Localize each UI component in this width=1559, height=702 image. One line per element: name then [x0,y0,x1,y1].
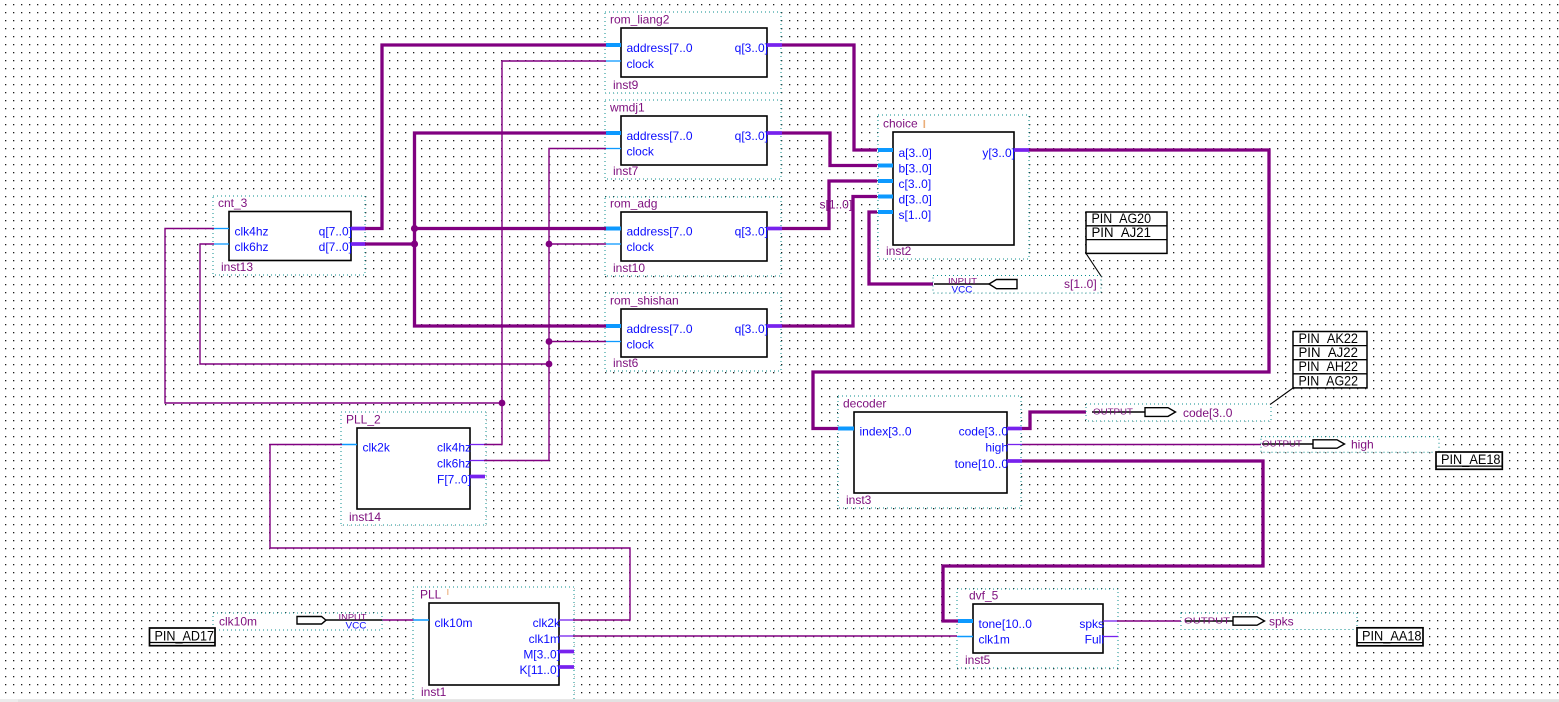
svg-text:clk4hz: clk4hz [437,440,471,454]
junction trunk/cnt_3.d [411,240,418,247]
block rom_shishan (inst6) [605,293,782,371]
svg-text:inst7: inst7 [613,164,639,178]
output pin spks symbol [1184,616,1265,626]
artifact tick after PLL title [447,589,449,595]
svg-text:decoder: decoder [843,397,886,411]
svg-text:clk6hz: clk6hz [437,456,471,470]
wire decoder.high to output pin [1022,444,1262,446]
output pin spks selection box [1181,613,1357,630]
wire PLL.clk1m to dvf_5.clk1m [573,635,957,637]
svg-text:q[7..0]: q[7..0] [319,224,352,238]
pin table PIN_AG20/PIN_AJ21 [1086,211,1167,253]
artifact tick after choice title [924,120,926,128]
svg-text:s[1..0]: s[1..0] [899,208,932,222]
block rom_adg (inst10) [605,197,782,277]
svg-text:OUTPUT: OUTPUT [1262,439,1302,449]
junction clk6hz/rom_shishan [546,338,553,345]
block cnt_3 (inst13) [213,196,366,275]
junction clk4hz [499,400,506,407]
svg-text:Full: Full [1085,632,1104,646]
output pin code symbol [1092,407,1176,417]
svg-text:PLL: PLL [420,588,442,602]
svg-text:address[7..0: address[7..0 [627,322,693,336]
svg-text:inst13: inst13 [221,260,253,274]
wire clk6hz branch to cnt_3.clk6hz [200,244,549,364]
junction clk6hz/cnt [546,361,553,368]
wire clk6hz branch to rom_shishan.clock [549,341,606,343]
svg-text:inst2: inst2 [886,244,912,258]
output pin high label [1351,438,1374,452]
pin box PIN_AD17 [150,628,216,646]
block PLL_2 (inst14) [341,412,486,525]
bus wmdj1.q to choice.b [782,133,877,166]
svg-text:q[3..0]: q[3..0] [735,224,768,238]
svg-text:code[3..0: code[3..0 [959,424,1009,438]
svg-text:PIN_AE18: PIN_AE18 [1441,452,1501,467]
svg-text:clk10m: clk10m [435,616,473,630]
net label s[1..0] [820,198,853,212]
bus cnt_3.q to rom_liang2.address [365,45,606,229]
output pin code label [1183,406,1233,420]
svg-text:clock: clock [627,240,655,254]
svg-text:cnt_3: cnt_3 [218,196,248,210]
svg-text:clk1m: clk1m [979,632,1010,646]
svg-text:index[3..0: index[3..0 [860,424,912,438]
svg-text:clk6hz: clk6hz [235,240,269,254]
svg-text:PIN_AG22: PIN_AG22 [1299,373,1359,388]
svg-text:a[3..0]: a[3..0] [899,146,932,160]
block decoder (inst3) [838,396,1022,508]
svg-text:address[7..0: address[7..0 [627,224,693,238]
svg-text:K[11..0]: K[11..0] [520,663,560,677]
svg-text:rom_liang2: rom_liang2 [610,13,670,27]
svg-text:s[1..0]: s[1..0] [820,198,853,212]
svg-text:clk1m: clk1m [529,632,560,646]
stub clk2k into PLL_2 [342,444,357,446]
svg-text:high: high [1351,438,1374,452]
svg-text:high: high [985,440,1008,454]
output pin code selection box [1086,404,1271,421]
svg-text:clock: clock [627,144,655,158]
svg-text:wmdj1: wmdj1 [609,101,645,115]
svg-text:y[3..0]: y[3..0] [982,146,1015,160]
callout line to s[1..0] label [1086,253,1101,276]
output pin spks label [1269,615,1294,629]
junction trunk/rom_adg [411,225,418,232]
wire clk4hz branch to cnt_3.clk4hz [165,229,502,404]
svg-text:M[3..0]: M[3..0] [523,647,560,661]
stub clk10m into PLL [413,619,429,621]
svg-text:rom_adg: rom_adg [610,197,657,211]
svg-text:PIN_AA18: PIN_AA18 [1362,629,1422,644]
block choice (inst2) [878,115,1029,259]
pin table PIN_AK22..PIN_AG22 [1293,331,1367,388]
svg-text:PIN_AG20: PIN_AG20 [1092,211,1152,226]
svg-text:inst14: inst14 [349,510,381,524]
wire clk6hz branch to rom_adg.clock [549,243,606,245]
svg-text:spks: spks [1079,617,1104,631]
svg-text:d[3..0]: d[3..0] [899,192,932,206]
bus cnt_3.d to vertical trunk [365,242,415,245]
block dvf_5 (inst5) [957,589,1118,669]
svg-text:clk2k: clk2k [533,616,561,630]
svg-text:choice: choice [883,117,918,131]
bus s[1..0] input to choice.s [869,212,934,284]
svg-text:c[3..0]: c[3..0] [899,177,932,191]
stub clk1m into dvf_5 [957,636,973,638]
bus rom_shishan.q to choice.d [782,197,877,327]
svg-text:clock: clock [627,57,655,71]
svg-text:tone[10..0: tone[10..0 [955,457,1009,471]
svg-text:inst5: inst5 [965,653,991,667]
bus address trunk to wmdj1/rom_shishan [415,133,607,326]
bottom scrollbar strip [0,699,1559,702]
svg-text:inst1: inst1 [421,685,447,699]
svg-text:rom_shishan: rom_shishan [610,294,679,308]
svg-text:inst10: inst10 [613,261,645,275]
bus trunk to rom_adg.address [415,227,607,230]
svg-text:clk2k: clk2k [363,440,391,454]
input pin s[1..0] selection box [933,276,1101,294]
svg-text:inst3: inst3 [846,493,872,507]
svg-text:address[7..0: address[7..0 [627,41,693,55]
block PLL (inst1) [413,587,574,700]
stub tone into dvf_5 [958,619,973,623]
stub index into decoder [838,427,854,431]
svg-text:dvf_5: dvf_5 [969,589,999,603]
block rom_liang2 (inst9) [605,12,782,93]
svg-text:PIN_AK22: PIN_AK22 [1299,331,1359,346]
bus rom_adg.q to choice.c [782,181,877,229]
output pin high selection box [1261,437,1439,453]
input pin clk10m label [219,615,257,629]
output pin high symbol [1262,439,1345,449]
wire clk10m input net [381,619,414,621]
svg-text:b[3..0]: b[3..0] [899,161,932,175]
pin box PIN_AA18 [1357,628,1423,646]
wire PLL_2.clk6hz net [484,149,606,461]
bus rom_liang2.q to choice.a [782,45,877,150]
block wmdj1 (inst7) [605,100,782,179]
wire PLL_2.clk4hz net [484,61,606,445]
svg-text:d[7..0]: d[7..0] [319,240,352,254]
svg-text:PIN_AJ21: PIN_AJ21 [1092,225,1152,240]
svg-text:clock: clock [627,337,655,351]
svg-text:VCC: VCC [346,621,368,631]
input pin clk10m selection box [213,613,382,630]
svg-text:tone[10..0: tone[10..0 [979,617,1033,631]
pin box PIN_AE18 [1436,452,1502,469]
svg-text:PIN_AJ22: PIN_AJ22 [1299,345,1359,360]
svg-text:q[3..0]: q[3..0] [735,41,768,55]
input pin s[1..0] symbol [934,276,1017,295]
svg-text:PIN_AH22: PIN_AH22 [1299,359,1359,374]
svg-text:q[3..0]: q[3..0] [735,322,768,336]
input pin s[1..0] label [1064,277,1097,291]
svg-text:address[7..0: address[7..0 [627,129,693,143]
svg-text:OUTPUT: OUTPUT [1093,407,1133,417]
wire PLL.clk2k to PLL_2.clk2k [270,445,630,621]
svg-text:VCC: VCC [952,285,974,295]
bus choice.y to decoder.index [813,150,1269,429]
svg-text:PLL_2: PLL_2 [346,413,381,427]
svg-text:s[1..0]: s[1..0] [1064,277,1097,291]
bus decoder.code to output pin [1022,412,1092,429]
wire dvf_5.spks to output pin [1117,620,1185,622]
svg-text:F[7..0]: F[7..0] [437,472,471,486]
svg-text:spks: spks [1269,615,1294,629]
svg-text:clk10m: clk10m [219,615,257,629]
callout line to code output [1270,388,1293,405]
svg-text:inst9: inst9 [613,78,639,92]
svg-text:clk4hz: clk4hz [235,224,269,238]
svg-text:inst6: inst6 [613,356,639,370]
bus decoder.tone to dvf_5.tone [943,461,1263,621]
svg-text:code[3..0: code[3..0 [1183,406,1233,420]
input pin clk10m symbol [297,612,382,631]
svg-text:PIN_AD17: PIN_AD17 [155,629,215,644]
junction clk6hz/rom_adg [546,241,553,248]
svg-text:OUTPUT: OUTPUT [1184,616,1230,626]
svg-text:q[3..0]: q[3..0] [735,129,768,143]
